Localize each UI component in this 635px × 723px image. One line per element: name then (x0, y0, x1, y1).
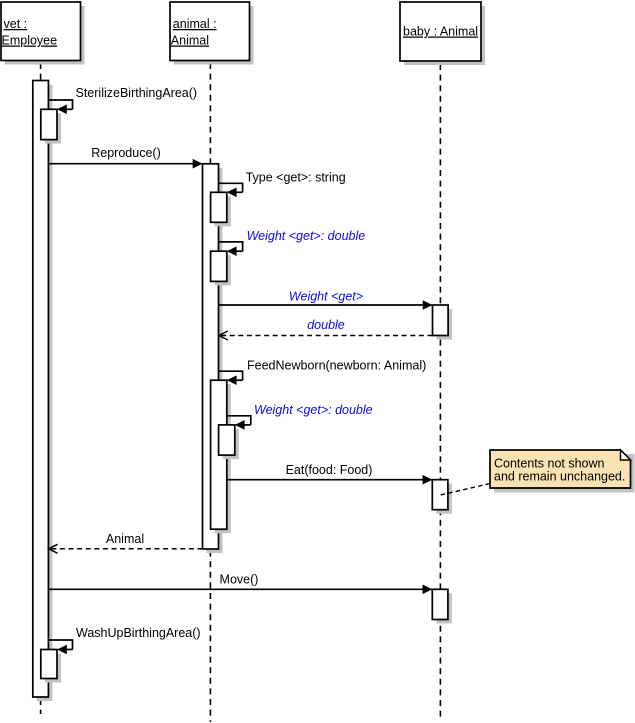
arrowhead into vet nested1 (57, 105, 67, 115)
self message Type loop (219, 183, 243, 192)
activation baby 2 shadow (436, 484, 452, 514)
note body (490, 450, 631, 488)
svg-text:Employee: Employee (2, 34, 58, 48)
activation animal nested2 Weight2 shadow (223, 429, 239, 459)
activation animal nested Type (211, 192, 227, 222)
note fold (621, 450, 631, 460)
activation vet main (33, 81, 49, 698)
arrowhead Reproduce (193, 159, 203, 169)
svg-text:Animal: Animal (171, 34, 209, 48)
svg-text:FeedNewborn(newborn: Animal): FeedNewborn(newborn: Animal) (247, 359, 426, 373)
svg-text:Animal: Animal (106, 532, 144, 546)
activation animal nested FeedNewborn shadow (215, 384, 231, 533)
note connector dashed (439, 484, 491, 496)
actor box baby : Animal (400, 2, 481, 61)
arrowhead Move (423, 585, 433, 595)
note shadow (494, 454, 635, 493)
svg-text:vet :: vet : (4, 17, 28, 31)
activation vet main shadow (37, 85, 53, 702)
return Animal dashed line (49, 548, 202, 550)
activation vet nested2 (41, 650, 57, 679)
lifeline animal dashed (209, 60, 211, 722)
self message FeedNewborn loop (219, 371, 243, 380)
svg-text:baby : Animal: baby : Animal (403, 25, 478, 39)
activation animal nested Weight (211, 251, 227, 281)
arrowhead Weight <get> (423, 300, 433, 310)
svg-text:and remain unchanged.: and remain unchanged. (494, 469, 625, 483)
svg-text:double: double (307, 318, 345, 332)
message Weight <get> line (219, 304, 432, 306)
svg-text:Weight <get>: double: Weight <get>: double (254, 403, 373, 417)
svg-text:WashUpBirthingArea(): WashUpBirthingArea() (76, 626, 201, 640)
arrowhead into animal nested Type (227, 188, 237, 198)
self message SterilizeBirthingArea() loop (48, 100, 72, 109)
self message WashUp loop (48, 640, 72, 650)
activation vet nested2 shadow (45, 654, 61, 683)
activation animal nested2 Weight2 (219, 425, 235, 455)
actor box vet : Employee shadow (5, 6, 85, 65)
return double dashed line (220, 335, 433, 337)
open arrowhead return double (219, 331, 228, 340)
activation baby 1 shadow (437, 309, 453, 340)
actor box vet : Employee (1, 2, 81, 61)
arrowhead into vet nested2 (57, 645, 67, 655)
self message Weight loop (219, 242, 243, 251)
activation animal nested Type shadow (215, 196, 231, 226)
svg-text:SterilizeBirthingArea(): SterilizeBirthingArea() (76, 86, 198, 100)
actor box animal : Animal shadow (174, 6, 254, 65)
arrowhead Eat (423, 475, 433, 485)
svg-text:Weight <get>: Weight <get> (289, 290, 363, 304)
activation baby 2 (432, 480, 448, 510)
activation animal nested FeedNewborn (211, 380, 227, 529)
activation vet nested1 (41, 109, 57, 139)
svg-text:Eat(food: Food): Eat(food: Food) (286, 463, 373, 477)
svg-text:animal :: animal : (173, 17, 217, 31)
activation baby 3 shadow (436, 593, 452, 623)
activation baby 1 (433, 305, 449, 336)
message Move line (48, 588, 431, 590)
message Eat line (227, 479, 431, 481)
activation animal nested Weight shadow (215, 255, 231, 285)
actor box baby : Animal shadow (404, 6, 485, 65)
self message Weight2 loop (227, 416, 251, 425)
lifeline baby dashed (439, 61, 441, 717)
activation animal main shadow (207, 168, 223, 553)
message Reproduce() line (48, 163, 201, 165)
arrowhead into animal nested2 Weight2 (235, 420, 245, 430)
svg-text:Move(): Move() (220, 572, 259, 586)
svg-text:Reproduce(): Reproduce() (91, 146, 160, 160)
actor box animal : Animal (170, 2, 250, 61)
activation vet nested1 shadow (45, 113, 61, 143)
arrowhead into animal nested Weight (227, 246, 237, 256)
svg-text:Weight <get>: double: Weight <get>: double (247, 229, 366, 243)
activation animal main (203, 164, 219, 549)
svg-text:Type <get>: string: Type <get>: string (246, 171, 346, 185)
open arrowhead return Animal (49, 544, 58, 553)
activation baby 3 (432, 589, 448, 619)
lifeline vet dashed (40, 60, 42, 714)
arrowhead into animal nested FeedNewborn (227, 375, 237, 385)
